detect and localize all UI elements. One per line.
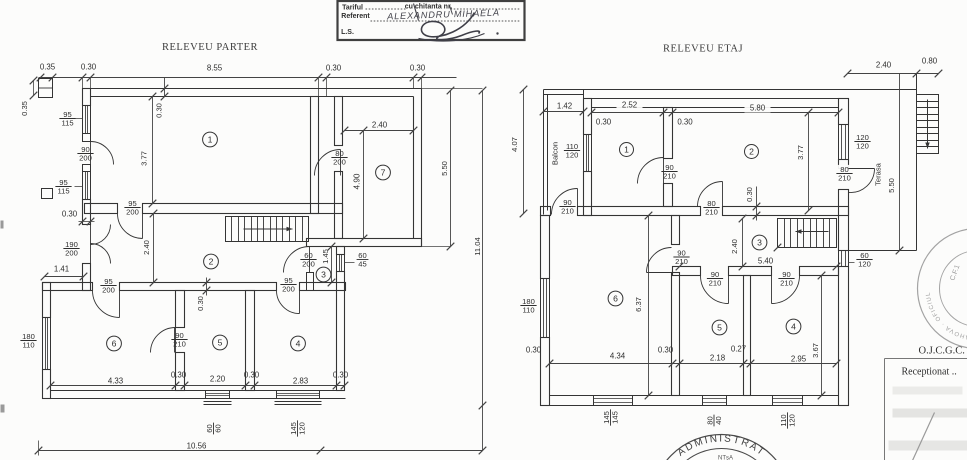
window 60/45: [337, 255, 345, 272]
svg-text:1: 1: [624, 145, 629, 155]
dim 1.42: [544, 111, 584, 113]
extension lines top: [82, 78, 84, 89]
jamb below window1: [83, 134, 91, 142]
dim 3.67 etaj rotated: [821, 276, 823, 396]
svg-text:Balcon: Balcon: [551, 142, 560, 165]
wall: bottom exterior wall: [43, 398, 346, 400]
label 120/120: [854, 133, 870, 151]
wall: upper-left exterior wall segments: [83, 89, 91, 106]
svg-text:O.J.C.G.C.: O.J.C.G.C.: [919, 346, 965, 357]
svg-text:0.27: 0.27: [731, 344, 746, 353]
svg-text:2.83: 2.83: [293, 376, 309, 385]
wall: rooms 5/4 partition: [246, 291, 255, 391]
wall: rooms 6/5 partition: [176, 291, 185, 328]
svg-text:0.30: 0.30: [326, 63, 342, 72]
svg-text:200: 200: [65, 249, 78, 258]
dim 2.40 rotated (room 2): [153, 214, 155, 283]
exterior stairs top-right: [917, 95, 939, 154]
svg-text:115: 115: [61, 119, 73, 128]
label 90/210 room6: [673, 248, 689, 266]
window 180/110 etaj: [541, 279, 550, 338]
svg-text:60: 60: [214, 424, 223, 432]
svg-text:40: 40: [714, 416, 723, 424]
wall: etaj left exterior wall: [541, 216, 550, 279]
label 110/120 rotated: [779, 412, 797, 428]
circled room 2 etaj: [745, 145, 759, 159]
dotted line after Tariful: [366, 8, 407, 10]
balcon top rail: [544, 94, 584, 96]
label 80/40 rotated: [705, 415, 723, 427]
svg-text:4.90: 4.90: [353, 173, 362, 189]
circled room 4 etaj: [786, 319, 801, 334]
wall: bottom-section top wall: [43, 283, 93, 291]
wall: room1/room2 interior wall: [85, 204, 118, 214]
label 145/145 rotated: [602, 409, 620, 425]
svg-text:0.30: 0.30: [196, 296, 205, 311]
svg-text:2.20: 2.20: [210, 374, 226, 383]
svg-text:210: 210: [709, 279, 722, 288]
wall: etaj bottom exterior wall: [541, 405, 849, 407]
label 90/210 balcon door: [559, 198, 575, 216]
wall: rooms5/4 partition: [744, 276, 751, 396]
stairs etaj: [778, 219, 837, 248]
wall segment left y263-290: [83, 264, 91, 291]
dim 2.40 room 7: [345, 130, 414, 132]
window 60/60 bottom: [206, 391, 230, 399]
dim 0.30 rotated (top wall, room1): [164, 78, 166, 97]
svg-text:2: 2: [209, 257, 214, 267]
svg-text:5.50: 5.50: [887, 178, 896, 193]
circled room 2: [204, 254, 219, 269]
wall: room7 left wall upper: [335, 97, 343, 146]
wall segment left y199-224: [83, 200, 91, 225]
label 60/45: [357, 251, 369, 269]
Receptionat box: [885, 358, 967, 360]
svg-text:1: 1: [208, 135, 213, 145]
leader to window2: [75, 186, 83, 188]
svg-text:210: 210: [780, 279, 793, 288]
jamb above window2: [83, 165, 91, 172]
circled room 6 etaj: [608, 291, 623, 306]
svg-text:2.95: 2.95: [791, 354, 807, 363]
dotted line after chitanta: [451, 8, 520, 10]
label 95/115 upper: [59, 110, 75, 128]
window 110/120 balcon: [584, 135, 592, 172]
window 80/40: [703, 396, 727, 406]
chimney vertical dim 0.35 rotated: [33, 81, 35, 96]
svg-text:210: 210: [561, 207, 574, 216]
stray dot: [496, 32, 498, 34]
label 95/115 lower: [55, 178, 71, 196]
svg-text:200: 200: [79, 154, 92, 163]
svg-text:RELEVEU PARTER: RELEVEU PARTER: [162, 42, 258, 53]
svg-text:200: 200: [282, 285, 295, 294]
svg-text:0.30: 0.30: [171, 370, 187, 379]
window 95/115 lower: [83, 172, 91, 200]
svg-text:5.50: 5.50: [440, 161, 449, 176]
dotted line under referent: [371, 20, 520, 22]
svg-text:RELEVEU ETAJ: RELEVEU ETAJ: [663, 43, 743, 54]
circled room 3 etaj: [752, 235, 767, 250]
LEFT PLAN: top dimension line: [39, 77, 457, 79]
svg-text:210: 210: [705, 208, 718, 217]
circled room 5: [213, 335, 228, 350]
dim 1.45 room3: [331, 247, 333, 283]
dim 1.41: [45, 276, 84, 278]
label 95/200 (room6 door): [100, 277, 116, 295]
window 145/120 bottom: [277, 391, 320, 399]
svg-text:4: 4: [296, 339, 301, 349]
dim 0.80 ext stairs: [917, 73, 939, 75]
circled room 7: [376, 165, 391, 180]
form box (Tariful / Referent / L.S.): [338, 1, 525, 40]
svg-text:0.30: 0.30: [410, 63, 426, 72]
svg-text:6: 6: [613, 294, 618, 304]
wall: room1 right wall / shaft left: [311, 97, 319, 214]
circled room 1: [203, 132, 218, 147]
dim 2.40 etaj rotated: [742, 219, 744, 267]
svg-text:2.40: 2.40: [730, 239, 739, 254]
svg-text:11.04: 11.04: [473, 237, 482, 255]
small square pillar: [42, 189, 53, 199]
dim 6.37 rotated: [648, 216, 650, 396]
wall: etaj front wall: [541, 207, 551, 216]
wall: etaj top exterior wall: [584, 98, 849, 100]
svg-text:200: 200: [302, 260, 315, 269]
wall: room7 wing bottom wall: [307, 239, 422, 247]
svg-text:10.56: 10.56: [187, 441, 207, 450]
svg-text:1.42: 1.42: [557, 101, 572, 110]
svg-text:4.07: 4.07: [510, 137, 519, 152]
svg-text:0.30: 0.30: [62, 209, 78, 218]
label 60/60 rotated: [205, 423, 223, 435]
svg-text:0.30: 0.30: [81, 62, 97, 71]
overall dim 10.56: [39, 450, 483, 452]
svg-text:Receptionat ..: Receptionat ..: [902, 367, 957, 378]
dim 2.40 terasa: [848, 73, 917, 75]
svg-text:0.30: 0.30: [333, 370, 349, 379]
svg-text:0.30: 0.30: [244, 370, 260, 379]
svg-text:5.80: 5.80: [750, 103, 766, 112]
svg-text:3.77: 3.77: [796, 145, 805, 160]
dim 4.90 rotated: [363, 131, 365, 239]
leader to window1: [76, 118, 83, 120]
svg-text:Tariful: Tariful: [342, 5, 363, 12]
dim 3.77 rotated: [152, 97, 154, 204]
circled room 3: [316, 267, 331, 282]
svg-text:5.40: 5.40: [758, 256, 774, 265]
circled room 1 etaj: [620, 143, 634, 157]
dim 3.77 etaj rotated: [808, 113, 810, 211]
label 180/110 etaj: [520, 297, 536, 315]
svg-text:120: 120: [856, 142, 869, 151]
window 120/120: [839, 125, 849, 160]
label 90/210 rooms 6/5: [171, 331, 187, 349]
svg-text:110: 110: [22, 341, 34, 350]
svg-text:0.30: 0.30: [745, 187, 754, 202]
dim 4.07 rotated: [523, 90, 525, 214]
svg-text:3.77: 3.77: [140, 151, 149, 166]
svg-text:6.37: 6.37: [634, 297, 643, 312]
svg-text:0.30: 0.30: [596, 117, 612, 126]
wall: bottom-section right exterior wall: [337, 247, 345, 255]
label 80/210 terasa door: [836, 165, 852, 183]
window 145/145: [594, 396, 633, 406]
label 90/210 room5: [707, 270, 723, 288]
stairs arrow: [244, 228, 293, 230]
svg-text:3.67: 3.67: [811, 343, 820, 358]
label 90/200: [77, 145, 93, 163]
svg-text:210: 210: [663, 172, 676, 181]
wall: etaj right exterior wall: [839, 99, 849, 125]
svg-text:3: 3: [757, 238, 762, 248]
svg-text:45: 45: [358, 260, 366, 269]
svg-text:210: 210: [838, 174, 851, 183]
terasa right edge: [916, 74, 918, 251]
window 60/120: [839, 251, 849, 267]
wall: room1/room2 partition: [664, 108, 673, 159]
svg-text:8.55: 8.55: [207, 63, 223, 72]
room3 left wall stub: [307, 273, 314, 291]
wall: room7 left wall lower: [335, 172, 343, 239]
signature scribble: [421, 13, 479, 40]
svg-text:2.40: 2.40: [142, 240, 151, 255]
balcon left rail: [543, 90, 545, 215]
dim 0.30 rotated room5 top: [206, 278, 208, 296]
svg-text:120: 120: [298, 422, 307, 435]
label 80/210 hall door: [703, 199, 719, 217]
svg-text:NTşA: NTşA: [718, 456, 733, 460]
circled room 6: [107, 336, 122, 351]
label 145/120 rotated: [289, 420, 307, 436]
svg-text:0.80: 0.80: [922, 56, 938, 65]
dim 5.50 terasa rotated: [899, 74, 901, 251]
stairs etaj arrow: [796, 231, 829, 233]
svg-text:5: 5: [218, 338, 223, 348]
chimney box top-left: [39, 79, 53, 98]
window 95/115 upper: [83, 106, 91, 134]
wall: left-plan top exterior wall: [83, 88, 422, 90]
svg-text:115: 115: [57, 187, 69, 196]
svg-text:0.35: 0.35: [40, 62, 56, 71]
svg-text:2.40: 2.40: [372, 120, 388, 129]
wall: room6 right partition: [672, 216, 680, 245]
label 90/210 room4: [778, 270, 794, 288]
terasa bottom edge: [849, 250, 917, 252]
wall: hall/rooms45 partition: [673, 267, 701, 276]
wall: bottom-section left exterior wall: [43, 283, 51, 318]
svg-text:1.45: 1.45: [321, 249, 330, 264]
svg-text:L.S.: L.S.: [341, 29, 354, 36]
extension line right wing: [422, 246, 451, 248]
svg-text:Terasa: Terasa: [874, 162, 883, 186]
svg-text:4: 4: [791, 322, 796, 332]
svg-text:110: 110: [522, 306, 534, 315]
svg-text:6: 6: [112, 339, 117, 349]
svg-text:4.34: 4.34: [610, 351, 626, 360]
wall: left-plan right exterior wall (room 7): [421, 89, 423, 247]
dim 11.04 rotated: [482, 91, 484, 406]
dim 5.50 rotated (parter right): [450, 91, 452, 247]
RIGHT PLAN: outer eaves line: [544, 89, 917, 91]
dim 0.30 rotated room2 bottom: [756, 187, 758, 221]
wall: room1 left wall upper: [584, 99, 592, 135]
label 60/200: [300, 251, 316, 269]
window 110/120 bottom: [773, 396, 803, 406]
svg-text:145: 145: [611, 411, 620, 424]
label 90/210 room1/2: [661, 163, 677, 181]
label 180/110: [20, 332, 36, 350]
diagonal pen stroke: [913, 413, 935, 460]
svg-text:0.30: 0.30: [677, 117, 693, 126]
svg-text:200: 200: [102, 286, 115, 295]
svg-text:5: 5: [717, 323, 722, 333]
ext stairs arrow down: [927, 100, 929, 149]
dim line bottom rooms: [51, 385, 345, 387]
dim 2.52 + 5.80 line: [592, 112, 839, 114]
label 60/120: [856, 251, 872, 269]
svg-text:120: 120: [566, 151, 579, 160]
svg-text:2: 2: [749, 147, 754, 157]
window 180/110: [43, 318, 51, 370]
svg-text:0.30: 0.30: [526, 345, 542, 354]
label 80/200: [331, 149, 347, 167]
svg-text:200: 200: [126, 208, 139, 217]
svg-text:4.33: 4.33: [108, 376, 124, 385]
dim line bottom etaj: [550, 363, 837, 365]
svg-text:120: 120: [858, 260, 871, 269]
left edge scan marks: [1, 221, 4, 229]
svg-text:200: 200: [333, 158, 346, 167]
svg-text:Referent: Referent: [341, 13, 370, 20]
label 95/200 (room1/2 wall): [124, 199, 140, 217]
svg-text:1.41: 1.41: [54, 264, 69, 273]
svg-text:2.40: 2.40: [876, 60, 892, 69]
faint rows in receptionat box: [893, 387, 963, 395]
svg-text:3: 3: [321, 270, 326, 280]
svg-text:7: 7: [381, 168, 386, 178]
circled room 5 etaj: [712, 320, 727, 335]
svg-text:0.35: 0.35: [20, 101, 29, 116]
label 95/200 (room4 door): [280, 276, 296, 294]
stairs parter: [226, 217, 309, 242]
svg-text:0.30: 0.30: [155, 103, 164, 118]
svg-text:0.30: 0.30: [658, 345, 674, 354]
svg-text:2.18: 2.18: [710, 353, 726, 362]
label 190/200: [63, 240, 79, 258]
circled room 4: [291, 336, 306, 351]
svg-text:120: 120: [788, 414, 797, 427]
svg-text:2.52: 2.52: [622, 100, 637, 109]
double door 190/200 arcs: [91, 225, 111, 245]
label 110/120: [564, 142, 580, 160]
